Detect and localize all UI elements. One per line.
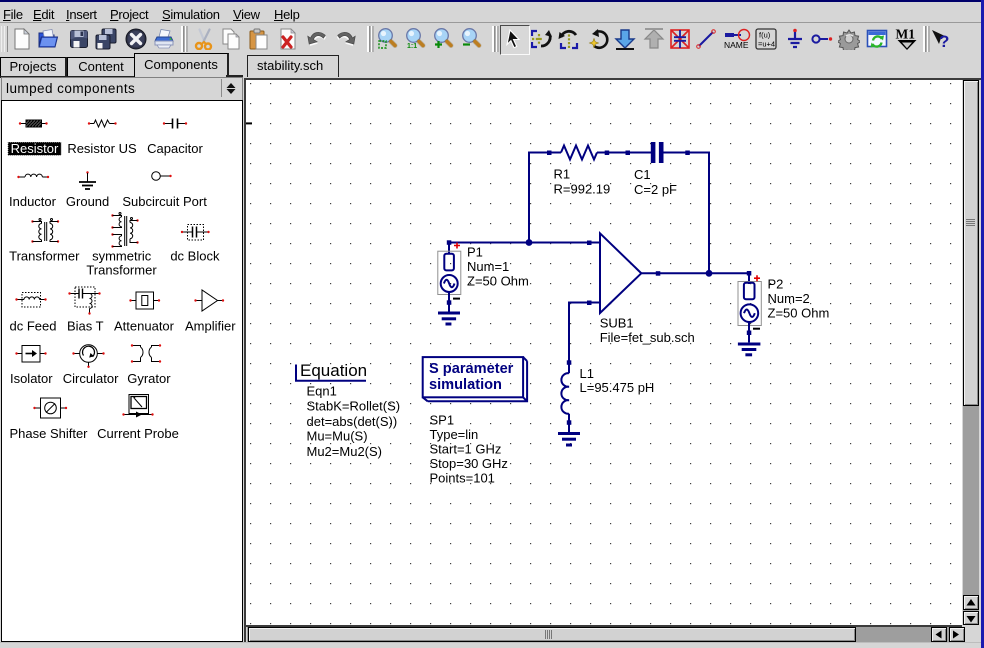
wire output to P2 [658, 272, 749, 274]
svg-text:Inductor: Inductor [9, 194, 57, 209]
ground below L1 [558, 423, 580, 446]
svg-text:Type=lin: Type=lin [430, 427, 479, 442]
svg-text:C1: C1 [634, 167, 651, 182]
svg-text:Transformer: Transformer [86, 262, 157, 277]
svg-text:Points=101: Points=101 [430, 471, 495, 486]
svg-text:f(u): f(u) [759, 31, 771, 40]
svg-text:Resistor US: Resistor US [67, 141, 137, 156]
svg-text:Z=50 Ohm: Z=50 Ohm [768, 305, 830, 320]
svg-text:Amplifier: Amplifier [185, 318, 236, 333]
power source P2 [738, 271, 761, 335]
wire amplifier lower pin to L1 [569, 303, 589, 363]
svg-text:StabK=Rollet(S): StabK=Rollet(S) [307, 399, 401, 414]
ground below P1 [438, 303, 460, 325]
svg-text:P1: P1 [467, 245, 483, 260]
svg-text:Capacitor: Capacitor [147, 141, 203, 156]
capacitor C1 [626, 142, 690, 163]
svg-text:Start=1 GHz: Start=1 GHz [430, 442, 502, 457]
power source P1 [438, 240, 461, 304]
svg-text:Stop=30 GHz: Stop=30 GHz [430, 456, 508, 471]
inductor L1 [561, 360, 571, 425]
op-amp SUB1 [587, 233, 660, 313]
svg-text:Mu2=Mu2(S): Mu2=Mu2(S) [307, 444, 383, 459]
node junction at amplifier output [706, 270, 713, 277]
svg-text:File=fet_sub.sch: File=fet_sub.sch [600, 330, 695, 345]
svg-text:Z=50 Ohm: Z=50 Ohm [467, 274, 529, 289]
equation block Eqn1 [296, 361, 400, 459]
svg-text:Transformer: Transformer [9, 248, 80, 263]
svg-text:1:1: 1:1 [407, 43, 417, 50]
node junction at P1/feedback [526, 239, 533, 246]
svg-text:SP1: SP1 [430, 413, 455, 428]
svg-text:P2: P2 [768, 277, 784, 292]
svg-text:Bias T: Bias T [67, 318, 104, 333]
svg-text:?: ? [939, 32, 949, 50]
ground below P2 [738, 333, 761, 355]
svg-text:Equation: Equation [300, 361, 367, 380]
svg-text:Isolator: Isolator [10, 371, 53, 386]
svg-text:dc Feed: dc Feed [10, 318, 57, 333]
svg-text:R=992.19: R=992.19 [554, 182, 611, 197]
S parameter simulation box SP1 [423, 357, 528, 401]
svg-text:Resistor: Resistor [11, 141, 59, 156]
svg-text:Subcircuit Port: Subcircuit Port [122, 194, 207, 209]
svg-text:dc Block: dc Block [170, 248, 220, 263]
wire R1 to C1 [607, 152, 628, 154]
svg-text:SUB1: SUB1 [600, 316, 634, 331]
svg-text:C=2 pF: C=2 pF [634, 182, 677, 197]
origin tick [246, 122, 252, 124]
svg-text:Gyrator: Gyrator [127, 371, 171, 386]
wire feedback left vertical [529, 153, 549, 243]
svg-text:M1: M1 [896, 28, 916, 42]
svg-text:Phase Shifter: Phase Shifter [9, 426, 88, 441]
svg-text:det=abs(det(S)): det=abs(det(S)) [307, 414, 398, 429]
svg-text:Ground: Ground [66, 194, 109, 209]
svg-text:Num=2: Num=2 [768, 291, 810, 306]
svg-text:NAME: NAME [724, 40, 749, 50]
wire P1 to amplifier input [449, 242, 589, 244]
svg-text:Num=1: Num=1 [467, 259, 509, 274]
svg-text:L1: L1 [580, 366, 594, 381]
svg-text:Eqn1: Eqn1 [307, 384, 337, 399]
svg-text:Circulator: Circulator [63, 371, 119, 386]
svg-text:S parameter: S parameter [429, 361, 514, 377]
svg-text:simulation: simulation [429, 377, 502, 393]
resistor R1 [547, 146, 609, 160]
wire C1 to output node [688, 153, 710, 274]
svg-text:symmetric: symmetric [92, 248, 152, 263]
svg-text:R1: R1 [554, 167, 571, 182]
svg-text:Attenuator: Attenuator [114, 318, 175, 333]
svg-text:=u+4: =u+4 [758, 40, 775, 49]
svg-text:Current Probe: Current Probe [97, 426, 179, 441]
svg-text:L=95.475 pH: L=95.475 pH [580, 380, 655, 395]
svg-text:Mu=Mu(S): Mu=Mu(S) [307, 429, 368, 444]
